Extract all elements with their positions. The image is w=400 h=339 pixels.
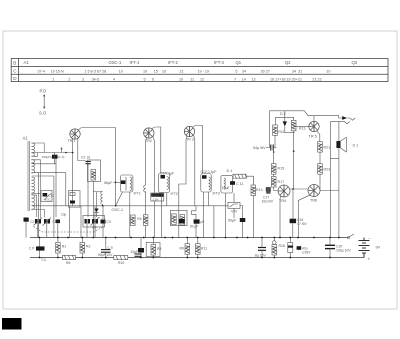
VR box [228,202,240,208]
wire box3 left leg to bus [68,206,70,238]
svg-text:31: 31 [298,70,302,74]
coil tap wire top [32,143,45,153]
speaker driver rect [336,141,340,148]
svg-text:34: 34 [242,70,246,74]
wire x53.9 vertical [53,176,55,238]
resistor R2 [91,170,96,181]
shield box 2 [88,160,101,182]
resistor R17 [271,177,276,188]
svg-text:R11: R11 [201,247,207,251]
svg-text:C9: C9 [107,220,111,224]
antenna rod line 2 [29,141,31,211]
R10 horizontal resistor [114,255,128,259]
IFT2 legs [162,193,167,239]
svg-text:1 5 8-3 67 28: 1 5 8-3 67 28 [84,70,106,74]
svg-text:C2: C2 [30,220,34,224]
svg-text:34: 34 [292,70,296,74]
svg-text:T.C.: T.C. [41,258,47,262]
junction dot TR1 base row [72,152,74,154]
svg-text:100µ 10V: 100µ 10V [336,248,351,252]
speaker cone [340,137,346,152]
R3 resistor [80,243,85,254]
svg-text:IFT3: IFT3 [213,192,220,196]
osc coil box [120,175,132,192]
jack lines [336,116,343,118]
R8 resistor [180,215,185,226]
AGC diagonal arrow [44,193,51,200]
wire TR4-TR6 [289,188,308,190]
svg-text:16 17+18 19 20+21: 16 17+18 19 20+21 [270,77,302,81]
IFT3 winding [209,177,211,190]
wire R13 [292,117,295,218]
diode D1 [96,192,98,209]
callout black band [151,193,163,196]
black bar bottom-left [2,318,22,330]
svg-text:S 1: S 1 [353,144,359,148]
R5 resistor [143,215,148,226]
svg-text:19 15-N: 19 15-N [51,70,64,74]
wire speaker vert long [338,122,340,238]
svg-text:15: 15 [154,70,158,74]
antenna coil winding 4 [31,195,35,210]
C4 blob [56,220,61,224]
wire rail to cap [269,142,271,148]
svg-text:Q2: Q2 [285,60,291,65]
table row 1 text [24,60,358,65]
C9d blob [194,219,200,223]
wire x116 [115,128,117,206]
antenna coil winding 1 [31,143,35,156]
TR3 collector top wire [193,126,203,174]
osc coil core line [125,177,127,191]
wire R2 down [92,182,94,239]
svg-text:R14: R14 [256,188,263,192]
junction dots bus2 [39,257,331,259]
svg-text:21 22: 21 22 [312,77,321,81]
antenna rod line 1 [27,141,29,211]
gang dashed link [34,227,104,233]
svg-text:R18: R18 [279,244,285,248]
C18 electrolytic [288,243,293,253]
svg-text:19 - 19: 19 - 19 [198,70,209,74]
svg-text:D 1: D 1 [227,169,233,173]
table label column line [18,59,20,82]
wire TR4 emitter down [280,196,281,239]
resistor R14 [251,185,256,196]
svg-text:R10: R10 [118,261,124,265]
svg-text:C 9: C 9 [108,246,113,250]
pickup winding x102.7 [93,192,102,206]
svg-text:OSC-1: OSC-1 [112,208,124,212]
wire R21-R23 [319,152,321,190]
50uF blob [240,218,246,222]
jack plug triangle [342,116,347,120]
svg-text:IFT-1: IFT-1 [130,60,140,65]
wire box3 right leg to bus [80,206,82,238]
svg-text:C5 0.1µF: C5 0.1µF [160,172,174,176]
svg-text:C 11: C 11 [236,182,243,186]
svg-text:10µ: 10µ [61,213,67,217]
wire detector down [225,193,227,238]
R8b resistor [151,245,156,256]
C8 varcap blob [92,219,98,224]
R4 resistor [131,215,136,226]
junction dot osc gnd b [115,205,117,207]
wire choke down [55,159,57,217]
svg-text:1: 1 [52,77,54,81]
svg-text:µF: µF [201,220,205,224]
choke blob [52,155,58,159]
coil tap wire 8 [32,210,45,218]
svg-text:R1: R1 [62,245,66,249]
svg-text:19: 19 [143,70,147,74]
C6 blob [85,219,91,224]
svg-text:TR6: TR6 [310,199,317,203]
svg-text:AGC: AGC [44,197,51,201]
svg-text:x/16V: x/16V [302,250,311,254]
TR3 left leg [179,136,187,239]
TR2 left leg to bus [145,192,147,239]
svg-text:50µF: 50µF [228,219,237,223]
cap on bus [135,254,142,256]
top rail [270,111,336,142]
svg-text:R17: R17 [278,180,285,184]
svg-text:12: 12 [200,77,204,81]
R11b resistor [196,244,201,255]
54u leads [266,147,276,149]
svg-text:R23: R23 [324,168,331,172]
wire R14 vert [252,176,254,238]
measurement callout box 455kc [151,193,164,201]
TR1 collector top wire [79,128,116,131]
wire ground row [32,205,228,207]
switch on bus [348,234,354,238]
IFT3 cap blob [202,175,207,179]
svg-text:10µF: 10µF [131,250,139,254]
svg-text:C12 0.1µF: C12 0.1µF [201,170,217,174]
IFT2 winding [167,177,169,190]
svg-text:34-5: 34-5 [92,77,99,81]
transistor TR1 [70,129,80,139]
svg-text:S.O: S.O [39,111,47,116]
TR5 emitter down [317,131,320,142]
coil tap wire 7 [32,195,37,217]
C9 cap plates [101,250,111,253]
svg-text:3: 3 [82,77,84,81]
wire C1 down [25,222,27,238]
resistor R11 [273,125,278,135]
wire VR right [240,206,243,219]
wire 50uF down [242,222,244,238]
svg-text:1.5V: 1.5V [152,197,158,201]
diode D2 [284,111,286,122]
svg-text:C3 .01: C3 .01 [81,156,91,160]
svg-text:TR 1: TR 1 [68,139,76,143]
antenna coil winding 3 [31,177,35,193]
wire x213.9 [213,206,215,238]
svg-text:R15: R15 [278,167,285,171]
choke vertical [54,153,56,164]
wire TR6 emitter [298,195,310,238]
C11 cap blob [230,181,235,185]
coil tap wire 6 [32,192,42,194]
transistor TR3 [184,126,194,136]
svg-text:A1: A1 [24,60,30,65]
TR1 emitter long vertical [72,139,74,206]
junction dot choke row [65,152,67,154]
box3 component 1 [70,193,75,196]
wire x38.7 vertical [38,173,40,238]
svg-text:6: 6 [152,77,154,81]
svg-text:5: 5 [235,70,237,74]
VR arrow [230,204,239,207]
PO-SO arrow line [43,94,45,109]
wires C20 [329,238,331,258]
svg-text:8µ 16V: 8µ 16V [255,254,267,258]
cluster box [83,216,105,228]
R1 resistor [56,243,61,254]
thermistor pot [273,241,277,245]
vertical drops from bus1 to components row2 [40,238,291,258]
C17 box cap [266,187,270,194]
svg-text:R21: R21 [324,146,331,150]
wire 56uF left [114,181,121,183]
table row 3 text [52,77,321,81]
IFT3 box [201,174,211,193]
svg-text:37-4: 37-4 [38,70,45,74]
osc coil winding [130,177,132,191]
jack contacts [330,118,355,124]
56uF cap blob [121,180,125,184]
transistor TR4 [278,185,290,197]
TR3 right leg [194,135,195,206]
svg-text:2: 2 [68,77,70,81]
svg-text:16µF: 16µF [222,186,230,190]
CP blob [36,246,45,250]
TR2 right leg to bus [154,201,156,238]
IFT2 cap blob [161,175,166,179]
wire jack left vert [329,122,331,238]
box3 component 2 [70,201,75,204]
svg-text:B: B [13,61,16,66]
wire base row [31,152,73,154]
svg-text:47 /6V: 47 /6V [297,222,308,226]
wire C3 down [87,164,89,217]
svg-text:IFT1: IFT1 [134,192,141,196]
detector resistor horizontal [233,174,246,178]
C3 trim arrow [43,218,52,226]
transistor TR5 [309,121,319,131]
wire x120 56uF [122,181,124,183]
C16 blob [290,219,297,224]
shield box 3 [69,191,81,208]
C13 blob [266,188,271,192]
table row labels B C D [13,61,17,82]
AGC diode blob [43,193,48,197]
coil tap wire 3 [32,160,41,218]
svg-text:9V: 9V [376,246,381,250]
wire VR up [233,193,235,202]
TR2 left leg [145,137,148,185]
wire x166.8-206 to bus [166,205,168,207]
detector winding [224,178,225,189]
box around R8b [146,243,160,257]
svg-text:10: 10 [119,70,123,74]
svg-text:TR 3: TR 3 [186,137,194,141]
box around R5 cluster [170,210,187,225]
osc box legs [95,192,130,238]
table row line 2 [11,73,388,75]
svg-text:IFT2: IFT2 [171,192,178,196]
wire TR6 collector right [320,190,339,192]
TR5 base wire [294,126,309,128]
wire C9d down [195,224,197,238]
R9b resistor [185,244,190,255]
wire third row [31,172,65,174]
wire detector to right [246,176,253,185]
resistor R21 [318,142,323,153]
junction dot driver b [293,150,295,152]
54u cap [271,145,273,151]
TR2 collector top wire [152,127,161,173]
svg-text:C8: C8 [92,226,96,230]
C9 blob [101,220,106,224]
wire R11 top [275,117,277,125]
svg-text:R13: R13 [299,127,306,131]
svg-text:10: 10 [326,70,330,74]
svg-text:5: 5 [144,77,146,81]
IFT3 legs [204,192,209,238]
svg-text:Q3: Q3 [352,60,358,65]
junction dot TR4-TR6 [292,188,294,190]
R6 horizontal resistor [63,255,76,259]
C9c blob [179,219,185,223]
svg-text:R8: R8 [157,247,161,251]
wire R11 bottom [274,135,276,147]
TR5 collector up [313,116,315,121]
svg-text:TR 5: TR 5 [309,135,317,139]
R5b resistor [172,214,177,225]
svg-text:13: 13 [252,77,256,81]
main bus upper [30,237,348,239]
svg-text:IFT-2: IFT-2 [168,60,178,65]
svg-text:P.O: P.O [40,89,47,94]
junction dot osc gnd [102,205,104,207]
C20 plates [325,245,335,248]
svg-text:C.P: C.P [29,246,35,250]
svg-text:A1: A1 [23,136,29,141]
svg-text:R6: R6 [66,261,70,265]
resistor R15 [271,164,276,175]
junction dot 56uF [115,182,117,184]
wire to C3 [78,138,86,160]
C7 blob [138,248,144,253]
svg-text:30 27: 30 27 [261,70,270,74]
C2 arrow [34,218,43,226]
svg-text:14: 14 [242,77,246,81]
AGC box [41,191,52,202]
wire x65.8 vertical [65,173,67,206]
table row line 1 [11,66,388,68]
main bus lower [30,257,364,259]
svg-text:16: 16 [162,70,166,74]
wire second row [31,163,56,165]
trimmer arrow [61,148,63,152]
C2 varcap blob [35,219,41,224]
wire mid jog [192,206,197,220]
svg-text:R9: R9 [180,247,184,251]
wire C16 [292,223,294,237]
detector resistor hatch [235,174,248,178]
svg-text:OSC-1: OSC-1 [109,60,122,65]
capacitor C3 [86,162,91,164]
svg-text:50 µF: 50 µF [190,224,198,228]
coil tap wire 2 [32,153,38,157]
svg-text:21: 21 [180,70,184,74]
wires varcap row to bus [38,223,103,237]
wire D2 join [285,132,295,134]
wire fourth row [32,175,54,177]
C8 arrow [91,217,100,226]
table row 2 text [38,70,331,74]
svg-text:10: 10 [179,77,183,81]
battery [359,238,370,258]
wire speaker bottom [330,158,339,160]
wire VR down [233,208,235,218]
svg-text:56µF: 56µF [104,181,113,185]
junction dot driver a [273,151,275,153]
svg-text:R11: R11 [278,130,284,134]
svg-text:Q1: Q1 [236,60,242,65]
TR2 right leg [153,137,155,193]
C1 blob far left [24,218,29,222]
transistor TR2 [144,128,154,138]
svg-text:+: + [368,257,371,262]
svg-text:R6: R6 [137,217,141,221]
svg-text:16x10V: 16x10V [262,199,274,203]
transistor TR6 [308,185,320,197]
detector box [221,175,233,193]
8u cap plates [258,248,266,251]
svg-text:7: 7 [234,77,236,81]
antenna coil winding 2 [31,160,35,174]
svg-text:11: 11 [190,77,194,81]
resistor R23 [318,164,323,175]
C19 blob [297,246,302,250]
wire cap to R15 [274,151,278,191]
C3v blob [44,219,50,224]
table outer box [11,59,388,82]
resistor R13 [291,120,296,131]
IFT2 box [159,173,170,193]
svg-text:IFT-3: IFT-3 [214,60,224,65]
svg-text:R3: R3 [86,245,90,249]
svg-text:4: 4 [113,77,115,81]
TR2 emitter coil [144,185,146,192]
svg-text:54µ /6V: 54µ /6V [253,146,266,150]
driver sub-rail [276,116,295,118]
